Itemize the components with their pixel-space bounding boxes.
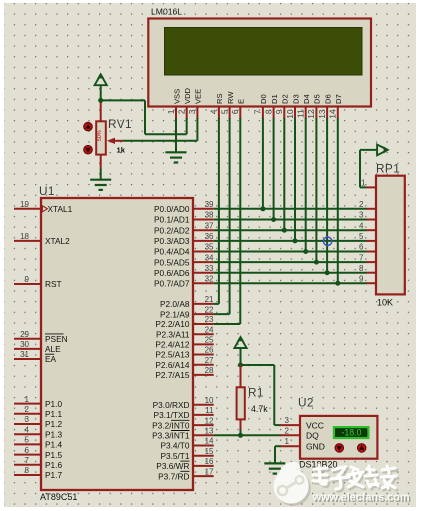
RP1 value 10K bbox=[377, 298, 393, 308]
svg-text:P0.7/AD7: P0.7/AD7 bbox=[154, 278, 190, 288]
svg-text:5: 5 bbox=[25, 436, 30, 445]
svg-text:25: 25 bbox=[205, 336, 214, 345]
U1 pin 16 P3.6/WR bbox=[156, 457, 214, 471]
svg-text:LM016L: LM016L bbox=[151, 7, 182, 17]
svg-text:1k: 1k bbox=[117, 145, 126, 154]
svg-text:P3.1/TXD: P3.1/TXD bbox=[154, 410, 190, 420]
U1 pin 26 P2.5/A13 bbox=[155, 346, 214, 360]
svg-text:P0.1/AD1: P0.1/AD1 bbox=[154, 215, 190, 225]
wire net D3: LCD D3 / U1 P0.3 / RP1 pin 5 bbox=[214, 118, 367, 243]
svg-text:4: 4 bbox=[210, 109, 219, 114]
svg-text:4: 4 bbox=[359, 221, 364, 230]
svg-text:30: 30 bbox=[20, 340, 29, 349]
svg-text:1: 1 bbox=[361, 179, 366, 188]
svg-text:1: 1 bbox=[25, 395, 30, 404]
wire VEE: LCD pin 3 to RV1 wiper bbox=[123, 118, 198, 141]
sensor U2 reference label bbox=[298, 396, 314, 410]
U1 pin 36 P0.3/AD3 bbox=[154, 232, 214, 246]
svg-text:27: 27 bbox=[205, 356, 214, 365]
U1 pin 15 P3.5/T1 bbox=[160, 447, 214, 461]
LCD pin 7 D0 (stub, number, name) bbox=[254, 94, 269, 119]
RP1 pin 4 bbox=[359, 221, 376, 230]
U1 pin 30 ALE bbox=[14, 340, 61, 354]
U2 adjust button (down) bbox=[335, 444, 344, 453]
svg-text:2: 2 bbox=[178, 109, 187, 114]
svg-text:D7: D7 bbox=[334, 94, 343, 104]
svg-text:P1.3: P1.3 bbox=[45, 429, 62, 439]
svg-text:6: 6 bbox=[359, 243, 364, 252]
LCD pin 13 D6 (stub, number, name) bbox=[318, 94, 333, 119]
U1 pin 33 P0.6/AD6 bbox=[154, 264, 214, 278]
svg-text:P2.0/A8: P2.0/A8 bbox=[160, 299, 190, 309]
power symbol (right arrow) at RP1 pin 1 bbox=[360, 145, 389, 156]
svg-text:GND: GND bbox=[306, 442, 325, 452]
svg-text:EA: EA bbox=[45, 354, 57, 364]
svg-text:P1.2: P1.2 bbox=[45, 419, 62, 429]
power symbol +5V (up arrow) above R1 bbox=[234, 335, 246, 365]
svg-text:P2.1/A9: P2.1/A9 bbox=[160, 309, 190, 319]
svg-text:3: 3 bbox=[25, 415, 30, 424]
svg-text:17: 17 bbox=[205, 467, 214, 476]
RV1 value label 1k bbox=[117, 145, 126, 154]
svg-text:VDD: VDD bbox=[183, 87, 192, 104]
blue no-connect marker on D6 crossing bbox=[323, 237, 331, 245]
wire net RW->P2.1 bbox=[214, 118, 230, 314]
svg-text:37: 37 bbox=[205, 221, 214, 230]
U1 pin 19 XTAL1 bbox=[14, 200, 73, 214]
wire net D0: LCD D0 / U1 P0.0 / RP1 pin 2 bbox=[214, 118, 367, 211]
ground symbol under LCD pin 1 bbox=[166, 152, 187, 162]
wire net D1: LCD D1 / U1 P0.1 / RP1 pin 3 bbox=[214, 118, 367, 222]
U1 pin 14 P3.4/T0 bbox=[160, 437, 214, 451]
svg-text:P0.2/AD2: P0.2/AD2 bbox=[154, 225, 190, 235]
RP1 pin 6 bbox=[359, 243, 376, 252]
U1 pin 37 P0.2/AD2 bbox=[154, 221, 214, 235]
RP1 pin 1 bbox=[361, 179, 376, 188]
U1 pin 13 P3.3/INT1 bbox=[152, 427, 214, 441]
svg-text:E: E bbox=[237, 99, 246, 104]
U2 pin 3 VCC bbox=[280, 416, 324, 430]
U1 pin 10 P3.0/RXD bbox=[153, 396, 214, 410]
svg-text:RS: RS bbox=[215, 93, 224, 104]
svg-text:P2.3/A11: P2.3/A11 bbox=[156, 329, 190, 339]
svg-text:P1.7: P1.7 bbox=[45, 470, 62, 480]
wire DQ net: U1 P3.3 to U2 DQ bbox=[214, 434, 281, 436]
RV1 wiper arrow (red) bbox=[107, 138, 123, 144]
svg-text:P3.4/T0: P3.4/T0 bbox=[160, 441, 189, 451]
svg-text:RST: RST bbox=[45, 279, 62, 289]
junction node: R1 / P3.3 / DQ bbox=[238, 433, 243, 438]
RP1 pin 2 bbox=[359, 200, 376, 209]
svg-text:www.elecfans.com: www.elecfans.com bbox=[312, 492, 410, 504]
svg-text:13: 13 bbox=[318, 109, 327, 119]
LCD pin 12 D5 (stub, number, name) bbox=[307, 94, 322, 119]
LCD pin 1 VSS (stub, number, name) bbox=[167, 89, 182, 119]
svg-text:2: 2 bbox=[25, 405, 30, 414]
svg-text:9: 9 bbox=[275, 109, 284, 114]
svg-text:D5: D5 bbox=[313, 94, 322, 104]
svg-text:P2.4/A12: P2.4/A12 bbox=[155, 340, 190, 350]
svg-text:26: 26 bbox=[205, 346, 214, 355]
svg-text:P3.5/T1: P3.5/T1 bbox=[160, 451, 189, 461]
U1 pin 12 P3.2/INT0 bbox=[152, 416, 214, 430]
wire VSS: LCD pin 1 down to ground bbox=[175, 118, 177, 152]
RV1 bottom pin bbox=[100, 155, 102, 168]
svg-text:10K: 10K bbox=[377, 298, 393, 308]
U1 pin 28 P2.7/A15 bbox=[155, 366, 214, 380]
svg-text:8: 8 bbox=[25, 466, 30, 475]
svg-text:U1: U1 bbox=[39, 184, 55, 198]
U2 part value DS18B20 bbox=[299, 460, 338, 470]
svg-text:11: 11 bbox=[205, 406, 214, 415]
svg-text:38: 38 bbox=[205, 211, 214, 220]
watermark logo and text (decorative) bbox=[274, 462, 412, 506]
RP1 pin 3 bbox=[359, 211, 376, 220]
svg-text:D3: D3 bbox=[291, 94, 300, 104]
U1 pin 24 P2.3/A11 bbox=[156, 325, 214, 339]
svg-text:7: 7 bbox=[25, 456, 30, 465]
potentiometer RV1 body bbox=[96, 121, 106, 154]
RP1 pin 8 bbox=[359, 264, 376, 273]
LCD pin 8 D1 (stub, number, name) bbox=[264, 94, 279, 119]
svg-text:DQ: DQ bbox=[306, 431, 319, 441]
svg-text:8: 8 bbox=[359, 264, 364, 273]
svg-text:10: 10 bbox=[286, 109, 295, 119]
resistor R1 body bbox=[237, 387, 245, 419]
svg-text:P3.6/WR: P3.6/WR bbox=[156, 461, 189, 471]
svg-text:6: 6 bbox=[231, 109, 240, 114]
svg-text:11: 11 bbox=[297, 109, 306, 118]
svg-text:1: 1 bbox=[285, 437, 290, 446]
svg-text:P1.5: P1.5 bbox=[45, 450, 62, 460]
wire VDD net: power junction to LCD pin 2 bbox=[101, 100, 187, 134]
svg-text:14: 14 bbox=[205, 437, 214, 446]
U1 pin 2 P1.1 bbox=[14, 405, 62, 419]
wire net E->P2.2 bbox=[214, 118, 241, 324]
svg-text:VEE: VEE bbox=[194, 89, 203, 104]
junction node: power / RV1 top / VDD net bbox=[98, 98, 103, 103]
wire net D5: LCD D5 / U1 P0.5 / RP1 pin 7 bbox=[214, 118, 367, 265]
LCD pin 4 RS (stub, number, name) bbox=[210, 93, 225, 118]
svg-text:P0.3/AD3: P0.3/AD3 bbox=[154, 236, 190, 246]
svg-text:PSEN: PSEN bbox=[45, 334, 68, 344]
U1 pin 3 P1.2 bbox=[14, 415, 62, 429]
svg-text:12: 12 bbox=[307, 109, 316, 119]
RV1 adjust button (up) bbox=[84, 122, 93, 131]
U1 pin 39 P0.0/AD0 bbox=[154, 200, 214, 214]
svg-text:6: 6 bbox=[25, 446, 30, 455]
U1 pin 21 P2.0/A8 bbox=[160, 295, 214, 309]
U1 pin 1 P1.0 bbox=[14, 395, 62, 409]
wire net RS->P2.0 bbox=[214, 118, 219, 304]
svg-text:7: 7 bbox=[359, 253, 364, 262]
R1 value 4.7k bbox=[251, 404, 268, 414]
svg-text:P3.3/INT1: P3.3/INT1 bbox=[152, 431, 190, 441]
potentiometer RV1 top pin bbox=[100, 103, 102, 122]
svg-text:24: 24 bbox=[205, 325, 214, 334]
U1 pin 29 PSEN bbox=[14, 330, 68, 344]
svg-text:32: 32 bbox=[205, 274, 214, 283]
junction node: power / R1 top / U2 VCC bbox=[238, 363, 243, 368]
svg-text:36: 36 bbox=[205, 232, 214, 241]
svg-text:3: 3 bbox=[188, 109, 197, 114]
svg-text:RV1: RV1 bbox=[108, 117, 132, 131]
svg-text:8: 8 bbox=[264, 109, 273, 114]
svg-text:2: 2 bbox=[285, 426, 290, 435]
wire net D7: LCD D7 / U1 P0.7 / RP1 pin 9 bbox=[214, 118, 367, 286]
ground symbol under RV1 bbox=[90, 180, 111, 190]
svg-text:VSS: VSS bbox=[172, 89, 181, 104]
svg-text:D0: D0 bbox=[259, 94, 268, 104]
svg-text:14: 14 bbox=[329, 109, 338, 119]
LCD pin 6 E (stub, number, name) bbox=[231, 99, 246, 119]
wire net D4: LCD D4 / U1 P0.4 / RP1 pin 6 bbox=[214, 118, 367, 254]
U1 part value AT89C51 bbox=[40, 492, 77, 502]
U1 pin 35 P0.4/AD4 bbox=[154, 243, 214, 257]
U1 pin 8 P1.7 bbox=[14, 466, 62, 480]
svg-text:31: 31 bbox=[20, 350, 29, 359]
LCD pin 2 VDD (stub, number, name) bbox=[178, 87, 193, 118]
svg-text:P0.4/AD4: P0.4/AD4 bbox=[154, 247, 190, 257]
svg-text:P1.0: P1.0 bbox=[45, 399, 62, 409]
svg-text:R1: R1 bbox=[248, 386, 264, 400]
resistor R1 bottom pin bbox=[240, 419, 242, 430]
svg-text:P0.0/AD0: P0.0/AD0 bbox=[154, 204, 190, 214]
wire U2 GND to ground bbox=[275, 446, 281, 463]
svg-text:3: 3 bbox=[285, 416, 290, 425]
svg-text:2: 2 bbox=[359, 200, 364, 209]
respack RP1 body bbox=[376, 176, 405, 295]
svg-text:7: 7 bbox=[254, 109, 263, 114]
U2 pin 1 GND bbox=[280, 437, 325, 451]
wire net D6: LCD D6 / U1 P0.6 / RP1 pin 8 bbox=[214, 118, 367, 275]
respack RP1 reference label bbox=[376, 162, 400, 176]
svg-text:D6: D6 bbox=[323, 94, 332, 104]
U2 pin 2 DQ bbox=[280, 426, 319, 440]
svg-text:28: 28 bbox=[205, 366, 214, 375]
U1 pin 25 P2.4/A12 bbox=[155, 336, 214, 350]
svg-text:4: 4 bbox=[25, 425, 30, 434]
IC U1 AT89C51 body bbox=[41, 198, 193, 490]
svg-text:5: 5 bbox=[220, 109, 229, 114]
svg-text:13: 13 bbox=[205, 427, 214, 436]
RP1 pin 5 bbox=[359, 232, 376, 241]
svg-text:12: 12 bbox=[205, 416, 214, 425]
U1 pin 11 P3.1/TXD bbox=[154, 406, 215, 420]
svg-text:9: 9 bbox=[25, 275, 30, 284]
svg-text:P1.1: P1.1 bbox=[45, 409, 62, 419]
svg-text:4.7k: 4.7k bbox=[251, 404, 268, 414]
svg-text:-18.0: -18.0 bbox=[341, 428, 361, 438]
sensor U2 DS18B20 body bbox=[300, 416, 377, 459]
U1 pin 17 P3.7/RD bbox=[158, 467, 214, 481]
U1 pin 5 P1.4 bbox=[14, 436, 62, 450]
IC U1 reference label bbox=[39, 184, 55, 198]
svg-text:10: 10 bbox=[205, 396, 214, 405]
U1 pin 18 XTAL2 bbox=[14, 232, 70, 246]
power symbol +5V (up arrow) above RV1 bbox=[95, 73, 107, 101]
svg-text:VCC: VCC bbox=[306, 421, 324, 431]
U1 pin 4 P1.3 bbox=[14, 425, 62, 439]
R1 reference label bbox=[248, 386, 264, 400]
LCD pin 11 D4 (stub, number, name) bbox=[297, 94, 312, 119]
RP1 pin 9 bbox=[359, 274, 376, 283]
svg-text:1: 1 bbox=[167, 109, 176, 114]
svg-text:9: 9 bbox=[359, 274, 364, 283]
svg-text:5: 5 bbox=[359, 232, 364, 241]
RV1 reference label bbox=[108, 117, 132, 131]
svg-text:P1.6: P1.6 bbox=[45, 460, 62, 470]
LCD pin 3 VEE (stub, number, name) bbox=[188, 89, 203, 119]
svg-text:16: 16 bbox=[205, 457, 214, 466]
U2 adjust button (up) bbox=[357, 444, 366, 453]
U1 pin 6 P1.5 bbox=[14, 446, 62, 460]
ground symbol under U2 bbox=[264, 463, 285, 473]
resistor R1 top pin bbox=[240, 365, 242, 387]
U1 pin 27 P2.6/A14 bbox=[155, 356, 214, 370]
svg-text:P0.5/AD5: P0.5/AD5 bbox=[154, 257, 190, 267]
U1 pin 9 RST bbox=[14, 275, 62, 289]
LCD display LM016L body bbox=[148, 19, 371, 107]
LCD pin 14 D7 (stub, number, name) bbox=[329, 94, 344, 119]
RV1 adjust button (down) bbox=[84, 145, 93, 154]
svg-text:P2.5/A13: P2.5/A13 bbox=[155, 350, 190, 360]
U1 pin 23 P2.2/A10 bbox=[155, 315, 214, 329]
svg-text:39: 39 bbox=[205, 200, 214, 209]
RP1 pin 7 bbox=[359, 253, 376, 262]
svg-text:18: 18 bbox=[20, 232, 29, 241]
wire R1 bottom to DQ net bbox=[240, 430, 242, 435]
svg-text:P1.4: P1.4 bbox=[45, 440, 62, 450]
svg-text:P3.2/INT0: P3.2/INT0 bbox=[152, 420, 190, 430]
wire RP1 pin1 to power bbox=[360, 150, 367, 188]
svg-text:D1: D1 bbox=[270, 94, 279, 104]
LCD pin 5 RW (stub, number, name) bbox=[220, 91, 235, 119]
U2 temperature display -18.0 bbox=[334, 427, 369, 438]
wire net D2: LCD D2 / U1 P0.2 / RP1 pin 4 bbox=[214, 118, 367, 233]
svg-text:23: 23 bbox=[205, 315, 214, 324]
U1 pin 22 P2.1/A9 bbox=[160, 305, 214, 319]
svg-text:AT89C51: AT89C51 bbox=[40, 492, 77, 502]
svg-text:P0.6/AD6: P0.6/AD6 bbox=[154, 268, 190, 278]
svg-text:XTAL1: XTAL1 bbox=[48, 204, 73, 214]
svg-text:D2: D2 bbox=[281, 94, 290, 104]
svg-text:P2.2/A10: P2.2/A10 bbox=[155, 319, 190, 329]
svg-text:ALE: ALE bbox=[45, 344, 61, 354]
svg-text:15: 15 bbox=[205, 447, 214, 456]
svg-text:P2.7/A15: P2.7/A15 bbox=[155, 370, 190, 380]
wire VCC net to U2 pin 3 bbox=[241, 365, 281, 425]
U1 pin 31 EA bbox=[14, 350, 57, 364]
svg-text:RW: RW bbox=[226, 91, 235, 104]
svg-text:U2: U2 bbox=[298, 396, 314, 410]
svg-text:21: 21 bbox=[205, 295, 214, 304]
LCD display LM016L label bbox=[151, 7, 182, 17]
svg-text:RP1: RP1 bbox=[376, 162, 400, 176]
svg-text:3: 3 bbox=[359, 211, 364, 220]
svg-text:XTAL2: XTAL2 bbox=[45, 236, 70, 246]
LCD pin 10 D3 (stub, number, name) bbox=[286, 94, 301, 119]
U1 pin 32 P0.7/AD7 bbox=[154, 274, 214, 288]
wire RV1 bottom to ground bbox=[100, 168, 102, 180]
svg-text:29: 29 bbox=[20, 330, 29, 339]
LCD screen bbox=[165, 28, 363, 76]
svg-text:33: 33 bbox=[205, 264, 214, 273]
U1 pin 38 P0.1/AD1 bbox=[154, 211, 214, 225]
U1 pin 34 P0.5/AD5 bbox=[154, 253, 214, 267]
svg-text:19: 19 bbox=[20, 200, 29, 209]
svg-text:22: 22 bbox=[205, 305, 214, 314]
svg-text:P2.6/A14: P2.6/A14 bbox=[155, 360, 190, 370]
svg-text:P3.7/RD: P3.7/RD bbox=[158, 471, 189, 481]
svg-text:D4: D4 bbox=[302, 94, 311, 104]
U1 pin 7 P1.6 bbox=[14, 456, 62, 470]
svg-text:35: 35 bbox=[205, 243, 214, 252]
svg-text:50%: 50% bbox=[97, 130, 103, 141]
svg-text:34: 34 bbox=[205, 253, 214, 262]
svg-text:P3.0/RXD: P3.0/RXD bbox=[153, 400, 190, 410]
LCD pin 9 D2 (stub, number, name) bbox=[275, 94, 290, 119]
